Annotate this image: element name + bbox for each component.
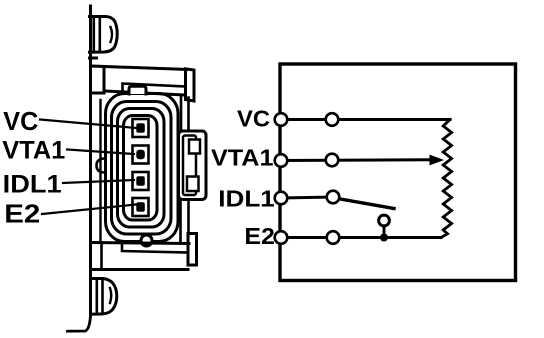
leader line IDL1 bbox=[63, 180, 134, 183]
svg-text:VC: VC bbox=[237, 106, 270, 132]
lock tab notch upper bbox=[189, 140, 200, 154]
sensor circuit box bbox=[280, 64, 516, 281]
terminal circle VC bbox=[275, 113, 288, 126]
housing side line 2 bbox=[99, 100, 101, 240]
lower bar inner vertical bbox=[100, 243, 103, 269]
pin hole E2 bbox=[136, 202, 145, 212]
pin socket VTA1 bbox=[133, 146, 149, 164]
pin hole IDL1 bbox=[136, 176, 145, 186]
leader line VC bbox=[40, 120, 136, 129]
upper arm top edge bbox=[92, 66, 187, 70]
idle switch contact circle bbox=[379, 215, 390, 226]
terminal circle IDL1 bbox=[275, 192, 288, 205]
svg-text:VTA1: VTA1 bbox=[2, 137, 65, 165]
connector pin cavity bbox=[124, 116, 158, 221]
connector shroud ring 3 bbox=[118, 109, 165, 228]
connector top mounting stud vertical line bbox=[89, 6, 92, 316]
connector bottom tail diagonal bbox=[68, 314, 91, 331]
pin socket E2 bbox=[133, 198, 149, 216]
terminal circle VTA1 bbox=[275, 154, 288, 167]
pin hole VC bbox=[136, 123, 145, 133]
svg-text:E2: E2 bbox=[4, 200, 40, 228]
wire E2 row bbox=[281, 236, 441, 239]
lower bar right end cap bbox=[188, 234, 197, 266]
connector top knob outline bbox=[90, 17, 118, 53]
pin socket IDL1 bbox=[133, 172, 149, 190]
junction dot on E2 wire bbox=[380, 234, 388, 242]
wire VTA1 row (wiper) bbox=[281, 158, 431, 162]
connector lower knob outline bbox=[91, 279, 117, 315]
inline connector circle VC bbox=[326, 113, 339, 126]
upper arm right end cap bbox=[186, 69, 195, 101]
potentiometer resistive track R bbox=[441, 120, 452, 238]
lower bar top edge bbox=[92, 243, 190, 244]
svg-text:IDL1: IDL1 bbox=[218, 186, 275, 212]
upper arm inner lip bbox=[123, 84, 186, 92]
svg-text:VTA1: VTA1 bbox=[211, 145, 274, 171]
lock tab inner bbox=[183, 136, 196, 196]
connector top knob inner vertical 2 bbox=[99, 18, 102, 52]
lower bar bottom edge bbox=[92, 268, 189, 271]
lock tab upper link lines bbox=[181, 97, 189, 131]
lock tab lower link lines bbox=[181, 200, 189, 243]
svg-text:VC: VC bbox=[3, 108, 38, 136]
connector lower knob inner vertical 1 bbox=[96, 280, 99, 314]
leader line VTA1 bbox=[67, 150, 134, 155]
housing clip C shape bbox=[97, 159, 106, 173]
upper arm left strip bottom edge bbox=[91, 92, 105, 95]
upper arm left strip right edge bbox=[103, 67, 106, 93]
connector top knob inner vertical 1 bbox=[93, 18, 96, 52]
wire IDL1 row bbox=[281, 197, 333, 198]
inline connector circle IDL1 bbox=[327, 191, 340, 204]
inline connector circle VTA1 bbox=[326, 154, 339, 167]
terminal circle E2 bbox=[275, 231, 288, 244]
pin socket VC bbox=[133, 119, 149, 137]
lock tab outer bbox=[179, 131, 207, 200]
connector top alignment tab bbox=[129, 86, 146, 94]
connector shroud outer ring bbox=[106, 94, 179, 242]
pin hole VTA1 bbox=[136, 150, 145, 160]
wire VC row bbox=[281, 118, 450, 121]
leader line E2 bbox=[42, 205, 136, 215]
connector lower knob inner vertical 2 bbox=[101, 280, 104, 314]
upper arm left strip top tick bbox=[90, 57, 97, 60]
idle switch blade bbox=[339, 199, 394, 209]
connector lower knob inner arc bbox=[110, 288, 111, 303]
connector bottom locator bump bbox=[141, 235, 152, 246]
svg-text:E2: E2 bbox=[244, 223, 275, 249]
svg-text:IDL1: IDL1 bbox=[3, 170, 62, 198]
connector shroud ring 2 bbox=[112, 102, 172, 235]
wiper arrowhead bbox=[430, 155, 445, 166]
lower bar inner lip bbox=[122, 244, 188, 253]
connector top knob inner arc bbox=[111, 27, 113, 42]
idle switch contact stem bbox=[383, 226, 386, 238]
upper arm bottom edge bbox=[104, 91, 186, 95]
lock tab notch lower bbox=[187, 177, 199, 192]
inline connector circle E2 bbox=[327, 231, 340, 244]
